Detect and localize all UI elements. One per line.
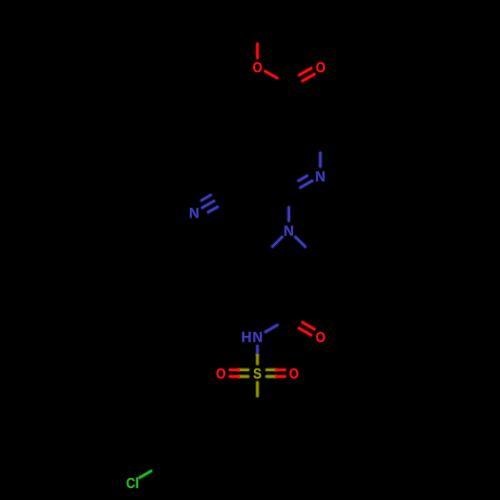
bond N1-C6 pyridine ring [318, 153, 323, 167]
atom label N azetidine [285, 226, 293, 236]
bond C4=C3 pyridine ring double (carbon-carbon, black on black) [0, 0, 1, 1]
bond C3-C2 pyridine ring (carbon-carbon, black on black) [0, 0, 1, 1]
bond C5-C4 pyridine ring (carbon-carbon, black on black) [0, 0, 1, 1]
bond phenyl C3-C4 (carbon-carbon, black on black) [0, 0, 1, 1]
bond S=O left double [230, 370, 248, 377]
atom label H of sulfonamide NH [242, 332, 250, 342]
bond S-CH2 benzyl [255, 382, 260, 396]
bond CH2-C3 azetidine left (carbon-carbon, black on black) [0, 0, 1, 1]
bond phenyl C6=C1 double (carbon-carbon, black on black) [0, 0, 1, 1]
bond C-N amide [266, 325, 278, 332]
bond C3(azetidine)-C amide (carbon-carbon, black on black) [0, 0, 1, 1]
bond C#N nitrile triple [202, 195, 218, 212]
atom label N nitrile [190, 208, 198, 218]
bond phenyl C1-C2 (carbon-carbon, black on black) [0, 0, 1, 1]
atom label O ester carbonyl [316, 62, 325, 72]
bond phenyl C2=C3 double (carbon-carbon, black on black) [0, 0, 1, 1]
atom label N1 pyridine [316, 171, 324, 181]
atom label S sulfonyl [254, 368, 262, 378]
bond C-Cl chloro [140, 471, 151, 478]
bond C2=N1 pyridine ring double [299, 176, 313, 188]
bond N-CH2 azetidine right [296, 237, 306, 247]
bond N-CH2 azetidine left [273, 237, 283, 247]
bond C(ester)-C5 pyridine (carbon-carbon, black on black) [0, 0, 1, 1]
atom label O amide [316, 332, 325, 342]
atom label N of sulfonamide NH [253, 332, 261, 342]
bond C3-C nitrile (carbon-carbon, black on black) [0, 0, 1, 1]
bond C=O amide double [299, 322, 314, 335]
bond C=O ester carbonyl double [299, 68, 314, 81]
bond CH2-phenyl ipso (carbon-carbon, black on black) [0, 0, 1, 1]
bond C6=C5 pyridine ring double (carbon-carbon, black on black) [0, 0, 1, 1]
bond O-C carbonyl (ester) [265, 71, 277, 78]
bond phenyl C5-C6 (carbon-carbon, black on black) [0, 0, 1, 1]
bond CH3-O (methyl ester O-CH3) [255, 44, 260, 58]
atom label O ester [253, 62, 262, 72]
bond CH2-C3 azetidine right (carbon-carbon, black on black) [0, 0, 1, 1]
bond phenyl C4=C5 double (carbon-carbon, black on black) [0, 0, 1, 1]
bond C2-N azetidine [286, 208, 291, 221]
atom label Cl chloro [127, 478, 139, 489]
bond S=O right double [267, 370, 285, 377]
atom label O sulfonyl left [217, 368, 226, 378]
atom label O sulfonyl right [290, 368, 299, 378]
bond N-S sulfonamide [255, 346, 260, 364]
